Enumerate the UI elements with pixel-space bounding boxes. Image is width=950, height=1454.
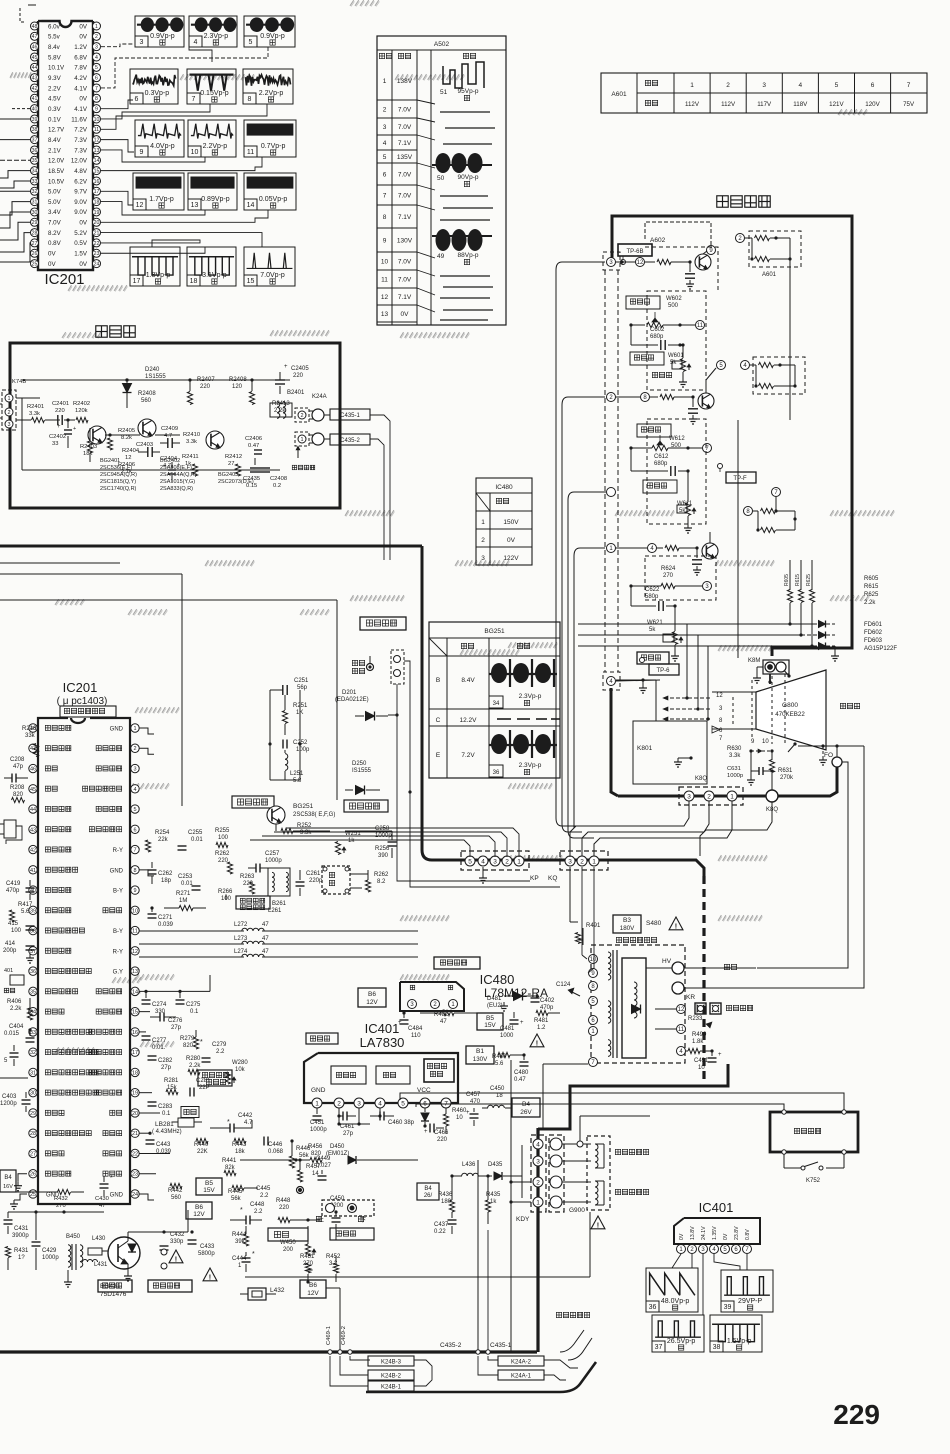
svg-text:1S1555: 1S1555 bbox=[145, 374, 166, 380]
IC201 upc1403 title bbox=[57, 680, 108, 707]
table A601 col 1 bbox=[685, 82, 700, 108]
svg-text:26: 26 bbox=[32, 251, 38, 257]
pin 30 IC201 left bbox=[31, 208, 62, 216]
svg-text:3: 3 bbox=[357, 1100, 361, 1107]
wire pin11 to box8 bbox=[101, 104, 267, 129]
svg-text:3: 3 bbox=[95, 45, 98, 51]
text BG2401 types bbox=[100, 458, 137, 492]
svg-text:27p: 27p bbox=[343, 1131, 354, 1137]
box B4 26V bbox=[512, 1098, 540, 1117]
table A601 col 6 bbox=[855, 73, 881, 113]
wire hout mid bbox=[188, 1210, 240, 1232]
svg-text:B5: B5 bbox=[486, 1015, 494, 1022]
hatch artifact bbox=[135, 974, 175, 980]
svg-text:24: 24 bbox=[94, 261, 100, 267]
svg-text:270k: 270k bbox=[780, 775, 794, 781]
svg-text:10.5V: 10.5V bbox=[48, 178, 65, 185]
svg-text:9.0V: 9.0V bbox=[74, 209, 88, 216]
svg-text:130V: 130V bbox=[473, 1056, 488, 1063]
CRT anode dot bbox=[782, 668, 791, 678]
pin 4 IC401br bbox=[710, 1226, 719, 1254]
cap 1042 sym bbox=[10, 1045, 19, 1066]
capacitor C262 18p bbox=[148, 862, 174, 884]
svg-text:10: 10 bbox=[94, 117, 100, 123]
CRT G800 label bbox=[775, 702, 805, 718]
svg-text:C435-1: C435-1 bbox=[490, 1342, 512, 1349]
svg-text:C435-2: C435-2 bbox=[340, 438, 360, 444]
svg-text:5800p: 5800p bbox=[198, 1251, 215, 1257]
svg-text:B261: B261 bbox=[272, 901, 287, 907]
svg-text:23.8V: 23.8V bbox=[734, 1226, 740, 1240]
label drive 6 bbox=[719, 728, 723, 734]
svg-text:R417: R417 bbox=[18, 902, 33, 908]
CRT G800 neck lines bbox=[712, 692, 756, 729]
svg-text:+: + bbox=[520, 1020, 524, 1026]
svg-text:B6: B6 bbox=[309, 1282, 317, 1289]
wire w602 bbox=[629, 323, 695, 326]
svg-text:14: 14 bbox=[312, 1171, 319, 1177]
capacitor C271 0.039 bbox=[140, 906, 174, 928]
svg-text:12: 12 bbox=[136, 202, 144, 209]
svg-text:C437: C437 bbox=[434, 1222, 449, 1228]
svg-text:2: 2 bbox=[383, 107, 387, 114]
wire HV bbox=[646, 967, 672, 969]
box C435-2 label bbox=[324, 434, 370, 445]
page number 229 bbox=[833, 1399, 880, 1430]
wire pin18 to box13 bbox=[101, 202, 205, 215]
svg-text:0.89Vp-p: 0.89Vp-p bbox=[201, 196, 230, 203]
label BG431 bbox=[100, 1283, 127, 1298]
cable hook thin1 bbox=[560, 1330, 584, 1352]
svg-text:C622: C622 bbox=[645, 587, 660, 593]
label K752 bbox=[806, 1178, 821, 1184]
svg-text:39: 39 bbox=[30, 908, 36, 914]
pin 40 IC201 left bbox=[31, 105, 62, 113]
pot W251 1k bbox=[335, 831, 361, 855]
svg-text:TP-F: TP-F bbox=[733, 476, 747, 482]
label C124 bbox=[556, 982, 580, 996]
svg-text:5k: 5k bbox=[649, 627, 656, 633]
R630 dashes bbox=[751, 749, 772, 753]
svg-text:R271: R271 bbox=[176, 891, 191, 897]
pot W611 5k bbox=[677, 471, 696, 533]
capacitor C256 1000p bbox=[375, 826, 397, 858]
svg-text:100: 100 bbox=[218, 835, 229, 841]
svg-text:A602: A602 bbox=[650, 237, 666, 244]
svg-text:5: 5 bbox=[835, 82, 839, 89]
svg-text:0.039: 0.039 bbox=[158, 922, 174, 928]
svg-text:200: 200 bbox=[283, 1247, 294, 1253]
dashed frame top stage bbox=[645, 247, 718, 292]
svg-text:C2406: C2406 bbox=[245, 436, 262, 442]
box line out bbox=[98, 1280, 132, 1292]
svg-text:D240: D240 bbox=[145, 367, 160, 373]
svg-text:C262: C262 bbox=[158, 871, 173, 877]
resistor R2404 12 bbox=[122, 448, 140, 461]
svg-text:200p: 200p bbox=[3, 948, 17, 954]
cable hook thin2 bbox=[568, 1338, 592, 1360]
svg-text:0.5V: 0.5V bbox=[74, 240, 88, 247]
wire pin13 to box10 bbox=[101, 150, 205, 162]
wire pin21 to box15 bbox=[101, 233, 262, 247]
label KP bbox=[530, 875, 539, 882]
svg-text:120: 120 bbox=[232, 384, 243, 390]
table A602 frame bbox=[377, 36, 506, 325]
svg-text:12: 12 bbox=[637, 260, 644, 266]
label K8Q conn bbox=[695, 776, 707, 782]
svg-text:C432: C432 bbox=[170, 1232, 185, 1238]
box green level bbox=[637, 652, 669, 664]
hatch artifact bbox=[270, 330, 330, 336]
CRT dashed neck pins bbox=[733, 674, 785, 746]
connector KDY dashed bbox=[531, 1135, 546, 1212]
svg-text:680p: 680p bbox=[654, 461, 668, 467]
svg-text:A601: A601 bbox=[762, 272, 777, 278]
svg-text:0V: 0V bbox=[79, 34, 87, 41]
svg-text:32: 32 bbox=[30, 1050, 36, 1056]
svg-text:C261: C261 bbox=[306, 871, 321, 877]
hatch artifact bbox=[718, 915, 763, 921]
pin 2 IC201u right bbox=[96, 744, 139, 752]
svg-text:C429: C429 bbox=[42, 1248, 57, 1254]
transistor V611 red bbox=[698, 393, 714, 409]
svg-text:R625: R625 bbox=[864, 592, 879, 598]
svg-text:1: 1 bbox=[730, 793, 734, 800]
capacitor C414 bbox=[3, 941, 35, 963]
svg-text:25: 25 bbox=[30, 1192, 36, 1198]
svg-text:5: 5 bbox=[383, 154, 387, 161]
svg-text:D481: D481 bbox=[487, 996, 502, 1002]
wire K8Q-2 sweep bbox=[582, 801, 709, 856]
box clamp bbox=[344, 800, 388, 812]
hatch artifact bbox=[395, 74, 465, 80]
waveform box 39 bbox=[721, 1270, 773, 1312]
node circle top bbox=[577, 1116, 650, 1147]
svg-text:2.2Vp-p: 2.2Vp-p bbox=[259, 90, 284, 97]
svg-text:C433: C433 bbox=[200, 1244, 215, 1250]
svg-text:4.2V: 4.2V bbox=[74, 75, 88, 82]
warning triangle S480 bbox=[669, 917, 683, 931]
box K24A-2 bbox=[498, 1356, 544, 1366]
label K801 bbox=[637, 745, 653, 752]
table BG251 waveform B bbox=[489, 659, 557, 708]
label C469-2 bbox=[341, 1326, 347, 1345]
box B1 130V bbox=[466, 1046, 494, 1064]
pin 6 LA7830 bbox=[420, 1098, 430, 1108]
flyback primary winding bbox=[608, 952, 611, 1056]
resistor R451 sym bbox=[305, 1263, 310, 1284]
pin 6 IC201u right bbox=[89, 825, 139, 833]
table A602 row divider bbox=[377, 269, 417, 271]
svg-text:R208: R208 bbox=[10, 785, 25, 791]
waveform box 13 0.89Vp-p bbox=[188, 173, 237, 210]
svg-text:3: 3 bbox=[762, 82, 766, 89]
svg-text:1: 1 bbox=[517, 858, 521, 865]
svg-text:6: 6 bbox=[383, 172, 387, 179]
correction board border bbox=[10, 343, 340, 508]
table BG251 row E bbox=[436, 752, 476, 759]
svg-text:16: 16 bbox=[132, 1030, 138, 1036]
label flyback name bbox=[616, 937, 656, 942]
svg-text:+: + bbox=[284, 364, 288, 370]
capacitor C403 1200p bbox=[0, 1092, 31, 1112]
svg-text:3.1Vp-p: 3.1Vp-p bbox=[202, 272, 227, 279]
warning triangle C433 bbox=[203, 1268, 217, 1282]
svg-text:1k: 1k bbox=[348, 838, 355, 844]
svg-text:W621: W621 bbox=[647, 620, 663, 626]
svg-text:2.3Vp-p: 2.3Vp-p bbox=[204, 33, 229, 40]
resistor R2412 27 bbox=[225, 454, 242, 476]
svg-text:5: 5 bbox=[95, 65, 98, 71]
svg-text:R252: R252 bbox=[297, 823, 312, 829]
pin 2 crt top bbox=[736, 234, 745, 243]
svg-text:16: 16 bbox=[94, 179, 100, 185]
svg-text:34: 34 bbox=[493, 701, 500, 707]
waveform dash rows 10-13 bbox=[440, 276, 493, 320]
svg-text:5.5v: 5.5v bbox=[48, 34, 61, 41]
svg-text:C461: C461 bbox=[340, 1124, 355, 1130]
svg-text:!: ! bbox=[175, 1255, 177, 1264]
svg-text:2.2: 2.2 bbox=[216, 1049, 225, 1055]
TP-6C testpoint bbox=[640, 658, 680, 676]
svg-text:C274: C274 bbox=[152, 1002, 167, 1008]
svg-text:0V: 0V bbox=[401, 311, 410, 318]
capacitor C402 470p bbox=[531, 996, 556, 1012]
wire tp h junction bbox=[388, 713, 399, 716]
wire pin31 left bbox=[0, 202, 31, 215]
focus circle bbox=[646, 982, 712, 994]
waveform box 12 1.7Vp-p bbox=[133, 173, 184, 210]
table BG251 colheads bbox=[429, 638, 560, 656]
diode D450 EM01Z bbox=[322, 1144, 380, 1164]
svg-text:8.2V: 8.2V bbox=[48, 230, 62, 237]
hatch artifact bbox=[10, 72, 32, 78]
coil connector circles bbox=[549, 1135, 564, 1212]
svg-text:150V: 150V bbox=[503, 519, 519, 526]
box K24B-1 bbox=[368, 1381, 414, 1391]
svg-text:R432: R432 bbox=[54, 1196, 68, 1202]
capacitor C281 22P bbox=[190, 1078, 211, 1097]
svg-text:38: 38 bbox=[32, 127, 38, 133]
svg-text:C251: C251 bbox=[294, 678, 309, 684]
svg-text:BG251: BG251 bbox=[484, 628, 505, 635]
svg-text:5.8: 5.8 bbox=[293, 778, 302, 784]
wire 4 down right bbox=[794, 386, 796, 430]
svg-text:45: 45 bbox=[30, 787, 36, 793]
thick bus K8Q left bbox=[618, 795, 766, 798]
svg-text:19: 19 bbox=[94, 210, 100, 216]
svg-text:31: 31 bbox=[32, 199, 38, 205]
capacitor C460 38p bbox=[370, 1112, 415, 1127]
svg-text:5.6: 5.6 bbox=[21, 909, 30, 915]
pin 8 IC201 right bbox=[79, 94, 100, 102]
svg-text:IC401: IC401 bbox=[699, 1200, 734, 1215]
pin 38 IC201 left bbox=[31, 125, 66, 133]
svg-text:560: 560 bbox=[141, 398, 152, 404]
pin 44 IC201u left bbox=[29, 805, 71, 813]
table IC480 frame bbox=[476, 478, 532, 565]
svg-text:5: 5 bbox=[468, 858, 472, 865]
pot W602 500 bbox=[647, 296, 682, 328]
capacitor C252 100p bbox=[270, 735, 310, 753]
capacitor C430 47 bbox=[95, 1175, 113, 1209]
res A601 r1 bbox=[745, 235, 790, 240]
box B6 12V reg bbox=[358, 988, 386, 1007]
svg-text:19: 19 bbox=[132, 1091, 138, 1097]
resistor R480 5.6 bbox=[492, 1052, 526, 1067]
svg-text:1: 1 bbox=[95, 24, 98, 30]
waveform 50 90Vp-p blobs bbox=[432, 153, 492, 187]
svg-text:C481: C481 bbox=[500, 1026, 515, 1032]
pin 4 conn mid bbox=[603, 672, 620, 690]
BG431 collector wire bbox=[128, 1230, 188, 1241]
FO circle bbox=[824, 752, 842, 767]
pin 34 IC201 left bbox=[31, 167, 66, 175]
svg-text:2: 2 bbox=[337, 1100, 341, 1107]
svg-text:36: 36 bbox=[32, 148, 38, 154]
pin25 hook bbox=[10, 1194, 27, 1209]
pin 10 IC201 right bbox=[71, 115, 100, 123]
inductor L274 bbox=[139, 949, 418, 957]
pin 10 IC201u right bbox=[103, 906, 139, 914]
wire k24b3 right bbox=[414, 1360, 432, 1386]
svg-text:C448: C448 bbox=[250, 1202, 265, 1208]
gnd pin26 bbox=[0, 1174, 27, 1191]
capacitor C484 110 bbox=[398, 1011, 423, 1039]
svg-text:B4: B4 bbox=[424, 1186, 432, 1192]
waveform box 38 bbox=[710, 1315, 762, 1352]
box B6 12V bot bbox=[300, 1280, 326, 1298]
svg-text:R452: R452 bbox=[326, 1254, 341, 1260]
svg-text:10.1V: 10.1V bbox=[48, 65, 65, 72]
wire pin20 rail bbox=[139, 1112, 160, 1114]
svg-text:14: 14 bbox=[94, 158, 100, 164]
svg-text:B3: B3 bbox=[623, 917, 631, 924]
svg-text:C2409: C2409 bbox=[161, 426, 178, 432]
wire HV right bbox=[684, 967, 756, 969]
pin 2 LA7830 bbox=[334, 1098, 344, 1108]
svg-text:C491: C491 bbox=[694, 1058, 709, 1064]
capacitor C2405 220 bbox=[275, 364, 309, 394]
svg-text:33k: 33k bbox=[25, 733, 36, 739]
svg-text:R266: R266 bbox=[218, 889, 233, 895]
svg-text:R2412: R2412 bbox=[225, 454, 242, 460]
capacitor C431 3900p bbox=[4, 1212, 30, 1239]
hatch artifact bbox=[508, 783, 553, 789]
svg-text:C275: C275 bbox=[186, 1002, 201, 1008]
wire 9 up bbox=[645, 222, 711, 245]
wire w612 bbox=[629, 446, 702, 449]
capacitor C450 2200 bbox=[320, 1196, 345, 1240]
table A602 row 1 bbox=[377, 78, 417, 100]
svg-text:W602: W602 bbox=[666, 296, 682, 302]
svg-text:8.4V: 8.4V bbox=[461, 677, 475, 684]
svg-text:12V: 12V bbox=[366, 999, 378, 1006]
svg-text:L251: L251 bbox=[290, 771, 304, 777]
svg-text:2: 2 bbox=[726, 82, 730, 89]
diode D201 EDA0212E bbox=[335, 690, 388, 721]
svg-text:7.0V: 7.0V bbox=[398, 193, 412, 200]
svg-text:1: 1 bbox=[481, 519, 485, 526]
capacitor C457 470 bbox=[466, 1092, 481, 1126]
thick wire conn4 down bbox=[611, 688, 618, 796]
svg-text:10: 10 bbox=[698, 1065, 705, 1071]
label to mainboard bbox=[292, 446, 314, 470]
wire ic401 wf3 bbox=[702, 1254, 704, 1315]
connector K8M bbox=[748, 658, 789, 674]
wire pin32 left bbox=[0, 190, 31, 192]
svg-text:12: 12 bbox=[381, 294, 389, 301]
socket K801 box bbox=[633, 680, 707, 784]
pin8 hook bbox=[139, 870, 154, 876]
svg-text:40: 40 bbox=[32, 107, 38, 113]
label drive 7 bbox=[719, 736, 723, 742]
svg-text:+: + bbox=[466, 1110, 470, 1116]
svg-text:13: 13 bbox=[191, 202, 199, 209]
pin 25 IC201 left bbox=[31, 260, 57, 268]
wire v 488 bbox=[487, 1230, 489, 1350]
svg-text:L436: L436 bbox=[462, 1162, 476, 1168]
svg-text:C282: C282 bbox=[158, 1058, 173, 1064]
pin 16 IC201 right bbox=[74, 177, 100, 185]
res green base bbox=[645, 259, 692, 264]
svg-text:1: 1 bbox=[315, 1100, 319, 1107]
cap C612 680p bbox=[631, 446, 690, 476]
pin 18 IC201u right bbox=[89, 1068, 139, 1076]
svg-text:12V: 12V bbox=[307, 1290, 319, 1297]
svg-text:G.Y: G.Y bbox=[113, 970, 123, 976]
resistor R2410 3.3k bbox=[183, 432, 200, 445]
thick wire K8M bbox=[738, 648, 772, 656]
svg-text:31: 31 bbox=[30, 1070, 36, 1076]
hatch artifact bbox=[830, 595, 870, 601]
svg-text:10k: 10k bbox=[235, 1067, 246, 1073]
pin 17 IC201 right bbox=[74, 187, 100, 195]
svg-text:R457: R457 bbox=[306, 1164, 321, 1170]
resistor R490 1.8k bbox=[686, 1029, 714, 1054]
svg-text:9.7V: 9.7V bbox=[74, 189, 88, 196]
dashed stub above IC bbox=[20, 5, 36, 22]
box band transformer bbox=[236, 896, 270, 910]
table A602 row 3 bbox=[377, 124, 417, 135]
svg-text:39k: 39k bbox=[235, 1239, 246, 1245]
svg-text:2SC1740(Q,R): 2SC1740(Q,R) bbox=[100, 486, 137, 492]
crystal LB281 bbox=[152, 1118, 202, 1135]
flyback gnd 7 bbox=[598, 1061, 608, 1063]
pin 1 IC401br bbox=[677, 1233, 686, 1253]
svg-text:+: + bbox=[57, 424, 61, 430]
IC401 br body bbox=[674, 1218, 760, 1244]
pin 12 IC201 right bbox=[74, 136, 100, 144]
svg-text:!: ! bbox=[536, 1039, 538, 1048]
svg-text:C255: C255 bbox=[188, 830, 203, 836]
label C435-2 bot bbox=[440, 1342, 462, 1349]
svg-text:5: 5 bbox=[249, 39, 253, 46]
pin 3 IC201u right bbox=[96, 764, 139, 772]
svg-text:C283: C283 bbox=[158, 1104, 173, 1110]
label R233 bbox=[688, 1016, 712, 1028]
capacitor C444 1 bbox=[232, 1251, 255, 1272]
svg-text:45: 45 bbox=[32, 55, 38, 61]
wire topleft v1 bbox=[11, 300, 13, 343]
svg-text:12: 12 bbox=[94, 138, 100, 144]
resistor R2406 2.7k bbox=[118, 462, 135, 475]
svg-text:TP-6B: TP-6B bbox=[626, 249, 643, 255]
waveform box 6 0.3Vp-p bbox=[130, 69, 178, 104]
svg-text:270: 270 bbox=[663, 573, 674, 579]
pin 7 crt bbox=[703, 444, 712, 453]
transistor V601 green bbox=[695, 254, 711, 270]
